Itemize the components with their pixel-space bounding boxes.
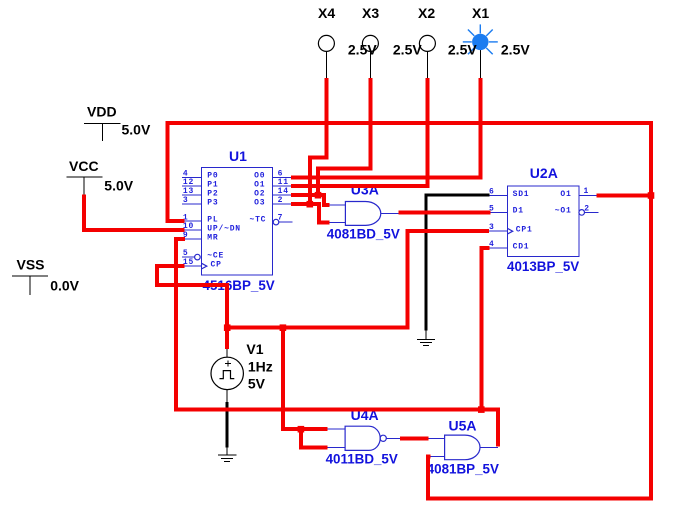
svg-text:~O1: ~O1 (555, 207, 572, 216)
svg-text:2.5V: 2.5V (393, 42, 422, 58)
svg-text:VDD: VDD (87, 103, 117, 119)
svg-text:~TC: ~TC (249, 216, 266, 225)
svg-text:6: 6 (489, 187, 495, 196)
svg-text:3: 3 (489, 223, 495, 232)
svg-text:SD1: SD1 (513, 190, 530, 199)
svg-text:1Hz: 1Hz (248, 358, 273, 374)
svg-text:12: 12 (183, 178, 194, 187)
svg-text:4: 4 (489, 240, 495, 249)
svg-text:1: 1 (584, 187, 590, 196)
svg-text:2.5V: 2.5V (448, 42, 477, 58)
svg-text:CP: CP (211, 260, 222, 269)
svg-text:4011BD_5V: 4011BD_5V (326, 451, 398, 466)
svg-text:V1: V1 (246, 341, 263, 357)
svg-text:U2A: U2A (530, 165, 558, 181)
svg-text:X3: X3 (362, 5, 379, 21)
svg-text:X1: X1 (472, 5, 489, 21)
svg-text:PL: PL (207, 216, 218, 225)
svg-text:X4: X4 (318, 5, 335, 21)
svg-text:2: 2 (278, 196, 284, 205)
svg-text:D1: D1 (513, 207, 524, 216)
svg-text:13: 13 (183, 187, 194, 196)
svg-text:14: 14 (278, 187, 289, 196)
svg-text:3: 3 (183, 196, 189, 205)
svg-text:4081BD_5V: 4081BD_5V (327, 226, 400, 241)
svg-text:O1: O1 (254, 180, 265, 189)
svg-text:P0: P0 (207, 172, 218, 181)
svg-text:UP/~DN: UP/~DN (207, 224, 241, 233)
svg-text:7: 7 (278, 213, 284, 222)
svg-text:O3: O3 (254, 198, 265, 207)
svg-text:CP1: CP1 (516, 226, 533, 235)
svg-text:4: 4 (183, 169, 189, 178)
svg-text:O2: O2 (254, 189, 265, 198)
svg-text:11: 11 (278, 178, 289, 187)
svg-text:U5A: U5A (449, 418, 477, 434)
svg-text:X2: X2 (418, 5, 435, 21)
svg-text:2.5V: 2.5V (501, 42, 530, 58)
svg-text:0.0V: 0.0V (50, 277, 79, 293)
svg-text:5.0V: 5.0V (122, 122, 151, 138)
svg-text:P2: P2 (207, 189, 218, 198)
svg-text:5V: 5V (248, 375, 266, 391)
svg-text:2: 2 (584, 204, 590, 213)
svg-text:O0: O0 (254, 172, 265, 181)
svg-text:5: 5 (183, 249, 189, 258)
svg-text:U3A: U3A (351, 181, 379, 197)
svg-text:~CE: ~CE (207, 251, 224, 260)
svg-text:4013BP_5V: 4013BP_5V (507, 259, 579, 274)
svg-text:2.5V: 2.5V (348, 42, 377, 58)
svg-text:O1: O1 (560, 190, 571, 199)
svg-text:CD1: CD1 (513, 242, 530, 251)
svg-text:6: 6 (278, 169, 284, 178)
svg-text:VSS: VSS (17, 257, 45, 273)
svg-text:MR: MR (207, 233, 218, 242)
svg-text:U1: U1 (229, 148, 247, 164)
svg-text:P3: P3 (207, 198, 218, 207)
svg-text:4081BP_5V: 4081BP_5V (427, 461, 499, 476)
svg-text:VCC: VCC (69, 158, 99, 174)
svg-text:5.0V: 5.0V (104, 177, 133, 193)
svg-text:P1: P1 (207, 180, 218, 189)
